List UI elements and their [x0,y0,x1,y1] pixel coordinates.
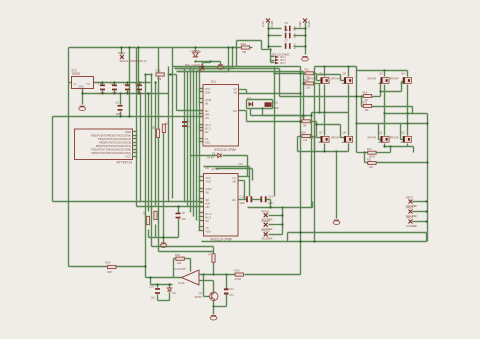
svg-text:VI: VI [74,82,77,86]
svg-text:PB5(PCINT5/RESET/ADC0/DW): PB5(PCINT5/RESET/ADC0/DW) [91,133,131,137]
svg-text:IRS2110-2PBF: IRS2110-2PBF [215,148,237,152]
svg-text:C13: C13 [268,195,273,199]
svg-text:SDA/4_CMOSI(70,2): SDA/4_CMOSI(70,2) [120,59,147,63]
svg-text:PAD4: PAD4 [270,20,274,27]
svg-text:COM: COM [205,98,211,102]
svg-text:Q8: Q8 [343,131,347,135]
svg-text:PAD9: PAD9 [406,216,413,220]
svg-text:100n: 100n [294,25,297,31]
svg-text:D6: D6 [206,166,210,170]
svg-text:PAD5: PAD5 [307,20,311,27]
svg-text:IC4A: IC4A [178,281,185,285]
svg-text:B4 3: B4 3 [281,62,287,65]
svg-text:PB4(PCINT4/CLKO/ADC2): PB4(PCINT4/CLKO/ADC2) [98,137,131,141]
svg-text:R3: R3 [158,77,162,81]
svg-text:SD: SD [205,198,209,202]
svg-text:Q1: Q1 [379,131,383,135]
svg-text:VB: VB [205,101,209,105]
svg-text:R15: R15 [304,69,309,72]
svg-text:ATTINY13: ATTINY13 [116,160,132,164]
svg-text:100n: 100n [273,106,279,110]
svg-text:0R: 0R [243,50,247,54]
svg-text:R16: R16 [304,79,309,82]
svg-text:LIN: LIN [205,205,209,209]
svg-text:100n: 100n [294,43,297,49]
svg-text:PAD11: PAD11 [262,209,271,213]
svg-text:C4: C4 [98,82,102,86]
svg-text:Q5: Q5 [319,72,323,76]
svg-text:3.3k: 3.3k [155,69,161,73]
svg-text:VSS: VSS [205,140,210,144]
svg-text:IRS2110-2PBF: IRS2110-2PBF [211,237,233,241]
svg-text:C9: C9 [285,28,289,32]
svg-text:NC: NC [205,130,209,134]
svg-text:IC1: IC1 [211,80,216,84]
svg-text:10u: 10u [151,295,156,299]
svg-text:LO: LO [232,176,235,180]
svg-text:Q4: Q4 [401,72,405,76]
svg-text:VO: VO [86,82,90,86]
svg-text:NC.2: NC.2 [205,123,211,127]
svg-text:LED1: LED1 [191,49,199,53]
svg-text:IRF244: IRF244 [331,136,340,140]
svg-text:PB2(PCINT2/SCK/ADC1/T0): PB2(PCINT2/SCK/ADC1/T0) [96,144,131,148]
svg-text:Q2: Q2 [401,131,405,135]
svg-text:IRF244: IRF244 [368,136,377,140]
svg-text:IRF244: IRF244 [390,77,399,81]
svg-text:PB1(PCINT1/MISO/AIN1/OC0B): PB1(PCINT1/MISO/AIN1/OC0B) [91,147,131,151]
svg-text:PAD1: PAD1 [118,51,126,55]
svg-text:VSS: VSS [205,229,210,233]
svg-text:C6: C6 [116,101,120,105]
svg-text:PAD3: PAD3 [196,69,204,73]
svg-text:R24: R24 [241,42,247,46]
svg-text:IRF244: IRF244 [368,77,377,81]
svg-text:Q7: Q7 [319,131,323,135]
svg-text:D5: D5 [212,151,216,155]
svg-text:HIN: HIN [205,201,210,205]
svg-text:10k: 10k [177,261,182,265]
svg-text:NC.2: NC.2 [205,212,211,216]
svg-text:GND: GND [298,21,302,27]
svg-text:SCOREF: SCOREF [262,237,274,241]
svg-text:HO: HO [232,198,236,202]
svg-text:C5: C5 [285,21,289,25]
svg-text:IRF244: IRF244 [331,77,340,81]
svg-text:R20: R20 [363,101,368,104]
svg-text:C7: C7 [285,39,289,43]
svg-text:VCC: VCC [205,176,211,180]
svg-text:R10: R10 [175,253,180,257]
svg-text:GND: GND [79,86,85,89]
svg-text:100n: 100n [112,91,119,95]
svg-text:R13: R13 [235,269,241,273]
svg-text:C1: C1 [135,82,139,86]
svg-text:C12: C12 [240,195,245,199]
svg-text:Q3: Q3 [379,72,383,76]
svg-text:D1: D1 [248,96,252,100]
svg-text:NC: NC [205,219,209,223]
svg-text:A4 46: A4 46 [207,156,214,160]
svg-text:R17: R17 [301,117,306,120]
svg-text:C8: C8 [182,211,186,215]
svg-text:C14: C14 [229,287,234,291]
svg-text:PAD12: PAD12 [262,228,271,232]
svg-text:Q6: Q6 [343,72,347,76]
svg-text:100n: 100n [116,112,123,116]
svg-text:VS: VS [205,137,209,141]
svg-text:C3: C3 [110,82,114,86]
svg-text:100n: 100n [268,202,274,205]
svg-text:10n: 10n [182,217,187,221]
svg-text:R21: R21 [367,158,372,161]
svg-text:C10: C10 [273,100,278,104]
svg-text:PB0(PCINT0/MOSI/AIN0/OC0A): PB0(PCINT0/MOSI/AIN0/OC0A) [91,151,131,155]
svg-text:100n: 100n [100,91,107,95]
svg-text:VCC: VCC [205,87,211,91]
svg-text:C16: C16 [149,285,154,289]
svg-text:C2: C2 [123,82,127,86]
svg-text:NC.3: NC.3 [205,215,211,219]
svg-text:IRF244: IRF244 [390,136,399,140]
svg-text:INV_CHAN B: INV_CHAN B [185,63,203,67]
svg-text:HIN: HIN [205,112,210,116]
svg-text:100n: 100n [137,91,144,95]
svg-text:4R7: 4R7 [107,270,113,274]
svg-text:VCC: VCC [125,154,131,158]
svg-text:VDD: VDD [205,90,211,94]
svg-text:470R: 470R [235,277,242,281]
svg-text:0R: 0R [303,124,306,127]
svg-text:R13: R13 [367,148,372,151]
svg-text:TLC272P: TLC272P [173,267,186,271]
svg-text:PAD10: PAD10 [262,219,271,223]
svg-text:100n: 100n [125,91,132,95]
svg-text:7805T: 7805T [72,72,81,76]
svg-text:PB3(PCINT3/CLKI/ADC3): PB3(PCINT3/CLKI/ADC3) [99,140,131,144]
svg-text:PAD7: PAD7 [406,196,413,200]
svg-text:LIN: LIN [205,116,209,120]
svg-text:PAD8: PAD8 [406,206,413,210]
svg-text:IC3: IC3 [239,162,244,166]
svg-text:VS: VS [205,226,209,230]
svg-text:GND: GND [125,130,131,134]
svg-text:VB: VB [232,179,236,183]
svg-text:R14: R14 [105,261,111,265]
svg-text:VDD: VDD [205,179,211,183]
svg-text:BC557: BC557 [195,296,203,299]
svg-text:A4 46: A4 46 [212,167,220,171]
svg-text:NC.3: NC.3 [205,126,211,130]
svg-text:R11: R11 [208,251,211,256]
svg-text:VB: VB [205,190,209,194]
svg-text:R19: R19 [363,91,368,94]
svg-text:100n: 100n [240,202,246,205]
svg-text:SD: SD [205,109,209,113]
svg-text:R18: R18 [301,131,306,134]
svg-text:+12V: +12V [261,21,265,28]
svg-text:COM: COM [205,187,211,191]
svg-text:HO: HO [233,109,237,113]
svg-text:VB: VB [233,90,237,94]
svg-text:47u: 47u [229,293,234,297]
svg-text:LO: LO [233,87,236,91]
svg-text:SCOREF: SCOREF [406,224,418,228]
svg-text:100n: 100n [294,32,297,38]
